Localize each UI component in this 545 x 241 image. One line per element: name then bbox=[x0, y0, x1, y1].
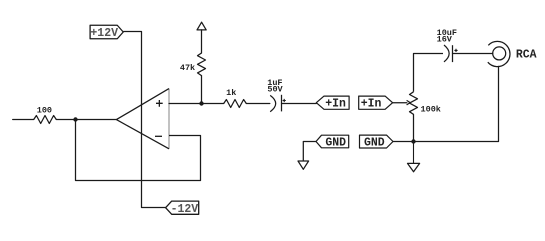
resistor 47k bbox=[198, 53, 206, 76]
node junction dot pot ground bbox=[411, 139, 415, 143]
node junction dot at + input net bbox=[199, 101, 203, 105]
capacitor C 1uF 50V (polarized) bbox=[270, 95, 286, 112]
wire +12V flag to supply rail bbox=[123, 32, 165, 208]
node junction dot at output bbox=[73, 117, 77, 121]
wire 47k lower stem bbox=[201, 76, 203, 104]
wire ground node to RCA shield bbox=[414, 66, 499, 142]
ground symbol (left) bbox=[298, 161, 309, 169]
wire input stub to resistor 100 bbox=[13, 119, 34, 121]
feedback wire: output node to - input bbox=[76, 120, 201, 181]
resistor 100 bbox=[34, 116, 57, 124]
connector J1 RCA jack bbox=[488, 41, 510, 66]
svg-text:+12V: +12V bbox=[90, 27, 118, 40]
net flag GND (left, tip pointing left) bbox=[316, 135, 349, 149]
svg-text:100k: 100k bbox=[421, 104, 441, 114]
wire op-amp + input to 1k resistor bbox=[169, 103, 224, 105]
wire pot top stem up to corner bbox=[414, 54, 444, 92]
svg-text:47k: 47k bbox=[180, 63, 195, 73]
wire GND flag to ground node bbox=[393, 141, 414, 143]
wire GND flag (left) to ground bbox=[303, 142, 316, 161]
wire +In flag to potentiometer wiper bbox=[393, 102, 407, 104]
svg-text:50V: 50V bbox=[267, 85, 283, 95]
net flag GND (right, tip pointing right) bbox=[360, 135, 394, 149]
wire ground stub below node bbox=[413, 142, 415, 163]
wire pot bottom stem to GND node bbox=[413, 114, 415, 141]
wire capacitor to RCA center pin bbox=[453, 53, 493, 55]
power arrow (up) above 47k bbox=[197, 22, 206, 30]
svg-text:GND: GND bbox=[325, 136, 346, 149]
wire resistor 100 to op-amp output node bbox=[56, 119, 116, 121]
svg-text:-12V: -12V bbox=[171, 203, 199, 216]
potentiometer 100k (vertical resistor) bbox=[410, 92, 418, 115]
ground symbol (right) bbox=[408, 163, 420, 171]
svg-text:100: 100 bbox=[37, 106, 52, 116]
power flag +12V bbox=[90, 25, 123, 40]
svg-text:1k: 1k bbox=[226, 88, 236, 98]
wire 1k to capacitor 1uF bbox=[246, 103, 269, 105]
svg-text:GND: GND bbox=[364, 136, 385, 149]
net flag +In (left, tip pointing left) bbox=[316, 96, 349, 111]
wire 47k upper stem bbox=[201, 30, 203, 53]
op-amp U1 (pointing left, inputs on right base) bbox=[116, 89, 169, 149]
net flag +In (right, tip pointing right) bbox=[359, 96, 393, 111]
svg-text:RCA: RCA bbox=[516, 49, 537, 62]
power flag -12V bbox=[166, 201, 199, 216]
svg-text:+In: +In bbox=[325, 98, 346, 111]
potentiometer wiper arrow bbox=[407, 100, 411, 105]
resistor 1k bbox=[224, 100, 247, 108]
wire capacitor to +In flag (left) bbox=[282, 103, 317, 105]
svg-text:+In: +In bbox=[361, 98, 382, 111]
capacitor C 10uF 16V (polarized) bbox=[444, 45, 458, 62]
svg-text:16V: 16V bbox=[437, 35, 453, 45]
